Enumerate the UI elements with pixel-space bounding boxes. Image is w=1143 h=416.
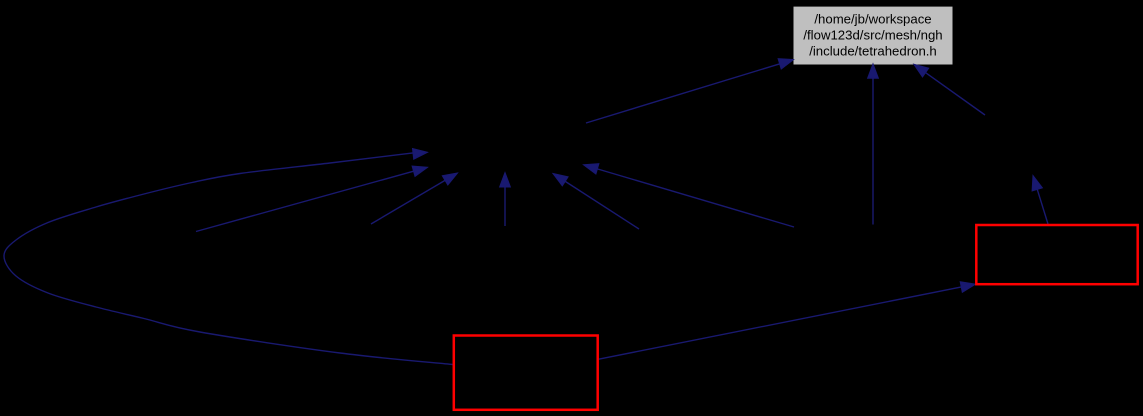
edge: lower node -> bottom of central node (steep arrow) (371, 173, 458, 224)
edge: right node -> tetrahedron.h bottom-right (914, 64, 985, 115)
node: bottom truncated node (red box) (454, 336, 598, 410)
node: right truncated node (red box) (976, 225, 1137, 284)
node: /home/jb/workspace/flow123d/src/mesh/ngh/include/tetrahedron.h (gray box) (794, 7, 953, 65)
edge: bottom red box -> right red box bottom-left corner (598, 282, 976, 360)
edge: long curved edge from bottom red box around far left up to central node (4, 149, 453, 365)
edge: lower-right node -> central node bottom (up-left arrow) (553, 174, 639, 230)
edge: vertical from lower node -> tetrahedron.h bottom (868, 64, 879, 225)
edge: point.h node -> tetrahedron.h (arrow into gray box left edge) (586, 59, 794, 123)
svg-text:/flow123d/src/mesh/ngh: /flow123d/src/mesh/ngh (803, 28, 942, 43)
edge: right red box -> node above it (1032, 176, 1048, 225)
edge: lower far-right node -> central node right corner (shallow up-left arrow) (584, 164, 795, 227)
svg-text:/home/jb/workspace: /home/jb/workspace (814, 12, 931, 27)
svg-text:/include/tetrahedron.h: /include/tetrahedron.h (809, 44, 937, 59)
edge: far-left node -> left edge of central node (lower arrow) (196, 166, 428, 232)
edge: short vertical arrow to central node bottom (500, 173, 511, 227)
